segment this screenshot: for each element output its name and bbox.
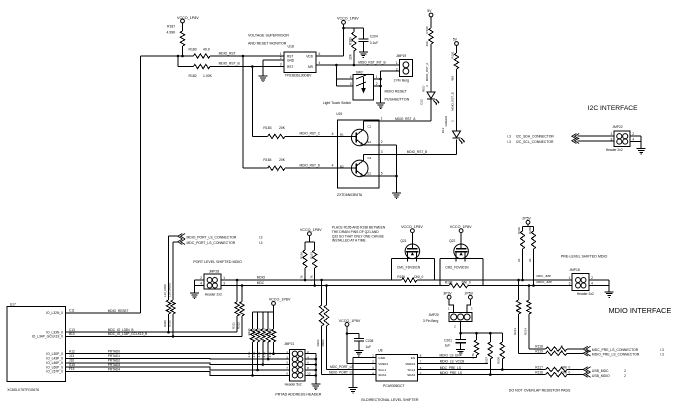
power VCCO_1P8V (rail pullups) bbox=[300, 228, 322, 236]
svg-text:R187: R187 bbox=[167, 25, 175, 29]
wire down to R184 bbox=[242, 56, 244, 168]
net label I2C_SDA_CONNECTOR bbox=[516, 135, 554, 139]
net label PRTAD0 bbox=[108, 350, 121, 354]
svg-text:I.3: I.3 bbox=[660, 348, 664, 352]
svg-text:R183: R183 bbox=[263, 126, 271, 130]
pin number J16 bbox=[69, 359, 74, 363]
resistor R223 PRTAD pullup bbox=[263, 312, 271, 359]
net label MDC_JMP bbox=[537, 274, 552, 278]
net label MDC_PORT_LS_CONNECTOR bbox=[187, 241, 236, 245]
pin number U19.5 bbox=[381, 171, 383, 175]
svg-text:VCCO_1P8V: VCCO_1P8V bbox=[300, 228, 322, 232]
svg-text:MDC: MDC bbox=[257, 281, 265, 285]
svg-text:GND: GND bbox=[378, 356, 386, 360]
svg-text:DNI_0: DNI_0 bbox=[561, 365, 570, 369]
svg-text:USB_MDC: USB_MDC bbox=[592, 369, 609, 373]
net label MDIO_PRE_LS bbox=[440, 371, 462, 375]
pin number D12.2 bbox=[425, 85, 429, 87]
svg-text:MDIO RESET: MDIO RESET bbox=[385, 90, 408, 94]
svg-text:MDC_PRE_LS_CONNECTOR: MDC_PRE_LS_CONNECTOR bbox=[592, 348, 639, 352]
part label CM1_FDV301N bbox=[397, 265, 421, 269]
svg-text:2: 2 bbox=[632, 132, 634, 136]
svg-text:MDIO: MDIO bbox=[257, 275, 266, 279]
junction R204/rail bbox=[325, 284, 328, 287]
sheet ref I2C_SCL bbox=[507, 140, 511, 144]
wire I2C_SDA to JMP22 bbox=[578, 135, 615, 137]
pin number D13.2 bbox=[451, 120, 455, 122]
LED D13 GREEN bbox=[441, 116, 465, 145]
off-page connector MDC_PORT_LS_CONNECTOR bbox=[178, 239, 185, 244]
pin number JMP20.1 bbox=[448, 306, 450, 310]
svg-text:R182: R182 bbox=[189, 74, 197, 78]
net label MDC_PRE_LS bbox=[440, 366, 461, 370]
svg-text:2: 2 bbox=[624, 374, 626, 378]
svg-text:MDIO_RST_A: MDIO_RST_A bbox=[395, 117, 416, 121]
svg-text:U19: U19 bbox=[336, 112, 342, 116]
wire U18 pin2 GND bbox=[263, 60, 284, 74]
net label MDIO_PORT_LS bbox=[329, 371, 354, 375]
wire SW2 right legs to ground bbox=[374, 71, 381, 101]
svg-text:4.99K: 4.99K bbox=[167, 31, 177, 35]
svg-text:IO_L43P_0: IO_L43P_0 bbox=[46, 357, 63, 361]
svg-text:2: 2 bbox=[624, 369, 626, 373]
svg-text:4.7K: 4.7K bbox=[471, 353, 475, 359]
sheet ref I2C_SDA bbox=[507, 135, 511, 139]
svg-text:MDIO_RST_B: MDIO_RST_B bbox=[451, 92, 455, 111]
reference designator U17 bbox=[10, 302, 16, 306]
svg-text:MDIO_RST_D: MDIO_RST_D bbox=[300, 163, 321, 167]
wire PRTAD2 row bbox=[66, 363, 290, 365]
svg-text:3: 3 bbox=[280, 63, 282, 67]
junction R224 bbox=[262, 363, 265, 366]
ground JMP21 bbox=[311, 382, 320, 390]
wire U8 GND pin bbox=[353, 358, 376, 386]
svg-text:U17: U17 bbox=[10, 302, 16, 306]
svg-text:R226: R226 bbox=[247, 328, 251, 335]
svg-text:R204: R204 bbox=[321, 339, 325, 346]
svg-text:4: 4 bbox=[372, 371, 374, 375]
wire I2C_SCL to JMP22 bbox=[578, 140, 615, 142]
wire to R182 bbox=[178, 66, 194, 68]
svg-text:IO_L57P_0: IO_L57P_0 bbox=[46, 370, 63, 374]
resistor R216 bbox=[535, 371, 570, 377]
junction SW2 pin2 bbox=[379, 85, 382, 88]
resistor R180 bbox=[189, 48, 211, 59]
svg-text:MDIO_JMP: MDIO_JMP bbox=[537, 280, 553, 284]
svg-text:R214: R214 bbox=[524, 328, 528, 335]
svg-text:R217: R217 bbox=[535, 365, 543, 369]
svg-text:CM1_FDV301N: CM1_FDV301N bbox=[397, 265, 421, 269]
label 2 Pin Berg bbox=[394, 79, 410, 83]
ground SW2/JMP19 bbox=[376, 101, 385, 109]
IC U8 PCA9306 level shifter bbox=[372, 354, 421, 381]
svg-text:JMP28: JMP28 bbox=[209, 270, 219, 274]
connector JMP20 3-pin berg bbox=[449, 312, 472, 321]
label reset monitor bbox=[248, 42, 287, 46]
svg-text:VCCO_1P8V: VCCO_1P8V bbox=[177, 16, 199, 20]
wire MDIO_RESET row bbox=[66, 312, 141, 314]
net label MDIO rail bbox=[257, 275, 266, 279]
svg-text:0: 0 bbox=[561, 349, 563, 353]
off-page connector USB_MDIO bbox=[583, 372, 590, 377]
label Header 2x2 (JMP18) bbox=[577, 292, 594, 296]
svg-text:MDIO_PORT_LS_CONNECTOR: MDIO_PORT_LS_CONNECTOR bbox=[187, 235, 237, 239]
junction R210/MDIO row bbox=[172, 335, 175, 338]
wire JMP28 pins 2/4 to ground bbox=[195, 280, 204, 291]
off-page connector USB_MDC bbox=[583, 367, 590, 372]
part label XC6SLX75TFGG676 bbox=[7, 388, 39, 392]
resistor R213 bbox=[513, 280, 521, 353]
junction VPULL bbox=[459, 332, 462, 335]
svg-text:MDIO_RESET: MDIO_RESET bbox=[108, 309, 129, 313]
connector JMP18 header 2x2 bbox=[569, 273, 593, 290]
resistor R224 PRTAD pullup bbox=[257, 312, 265, 365]
net label MDC_PORT_LS bbox=[330, 365, 354, 369]
box Q22 group outline bbox=[440, 258, 483, 285]
reference designator JMP28 bbox=[209, 270, 219, 274]
svg-text:6: 6 bbox=[332, 132, 334, 136]
svg-text:2: 2 bbox=[280, 56, 282, 60]
connector JMP22 header 2x2 bbox=[611, 131, 635, 146]
svg-text:VCCO_1P8V: VCCO_1P8V bbox=[450, 225, 472, 229]
svg-text:I2C_SDA_CONNECTOR: I2C_SDA_CONNECTOR bbox=[516, 135, 554, 139]
off-page connector MDIO_PRE_LS_CONNECTOR bbox=[583, 351, 590, 356]
resistor R212 bbox=[237, 286, 245, 337]
svg-text:3: 3 bbox=[569, 282, 571, 286]
svg-text:IO_L34P_GCLK19_0: IO_L34P_GCLK19_0 bbox=[32, 335, 63, 339]
junction R207/USB_MDIO row bbox=[489, 373, 492, 376]
svg-text:1: 1 bbox=[569, 276, 571, 280]
svg-text:R184: R184 bbox=[263, 158, 271, 162]
svg-text:VCCO_1P8V: VCCO_1P8V bbox=[401, 225, 423, 229]
reference designator Q21 bbox=[400, 239, 406, 243]
wire 5V to R191 bbox=[456, 45, 458, 53]
junction R197/rail bbox=[313, 284, 316, 287]
reference designator JMP19 bbox=[396, 54, 406, 58]
svg-text:R207: R207 bbox=[485, 357, 489, 364]
svg-text:U18: U18 bbox=[288, 45, 294, 49]
svg-text:0: 0 bbox=[561, 344, 563, 348]
power VCCO_1P8V (U8) bbox=[339, 319, 361, 326]
pin name IO_L43P_0 bbox=[46, 357, 63, 361]
resistor R196 bbox=[300, 242, 308, 281]
wire MDC_PORT chevron leg bbox=[173, 242, 178, 300]
svg-text:MDIO_PRE_LS_CONNECTOR: MDIO_PRE_LS_CONNECTOR bbox=[592, 352, 640, 356]
label MDIO RESET bbox=[385, 90, 408, 94]
label BI-DIRECTIONAL LEVEL SHIFTER bbox=[361, 398, 418, 402]
svg-text:JMP18: JMP18 bbox=[569, 268, 579, 272]
svg-text:4.7K: 4.7K bbox=[309, 275, 313, 281]
wire MDIO_PORT_LS rail bbox=[221, 279, 572, 281]
resistor R203 bbox=[316, 280, 324, 375]
svg-text:RST: RST bbox=[287, 65, 293, 69]
net label MDIO_LS_VCCB bbox=[440, 359, 465, 363]
pin number U19.1 bbox=[381, 117, 383, 121]
svg-text:ZXTD6N03E6TA: ZXTD6N03E6TA bbox=[337, 193, 363, 197]
reference designator Q22 bbox=[449, 239, 455, 243]
svg-text:7: 7 bbox=[420, 360, 422, 364]
svg-text:6: 6 bbox=[319, 52, 321, 56]
svg-text:1: 1 bbox=[223, 276, 225, 280]
svg-text:R210: R210 bbox=[167, 320, 171, 327]
wire 2P5V to JMP20 pin3 bbox=[467, 299, 470, 312]
svg-text:SCL1: SCL1 bbox=[378, 368, 386, 372]
net label MDC_PRE_LS_CONNECTOR bbox=[592, 348, 639, 352]
svg-text:2: 2 bbox=[372, 360, 374, 364]
svg-text:1: 1 bbox=[376, 75, 378, 79]
reference designator JMP20 bbox=[429, 313, 439, 317]
svg-text:JMP20: JMP20 bbox=[429, 313, 439, 317]
resistor R217 bbox=[535, 365, 570, 371]
pin name IO_L60P_0 bbox=[46, 365, 63, 369]
title MDIO INTERFACE bbox=[609, 306, 672, 315]
svg-text:1: 1 bbox=[381, 117, 383, 121]
wire 3P3V to JMP20 pin1 bbox=[449, 299, 454, 312]
pin number B13 bbox=[69, 332, 75, 336]
LED D12 RED bbox=[420, 85, 439, 106]
svg-text:10K: 10K bbox=[348, 53, 352, 60]
net label MDIO_RST_B (LED) bbox=[407, 150, 427, 154]
svg-text:MDC_PRE_LS: MDC_PRE_LS bbox=[440, 366, 461, 370]
wire U19 emitters to ground bbox=[379, 145, 397, 191]
svg-text:0.1uF: 0.1uF bbox=[370, 41, 378, 45]
svg-text:4.7K: 4.7K bbox=[257, 351, 261, 357]
junction R206/VPULL bbox=[475, 332, 478, 335]
wire PRTAD4 row bbox=[66, 372, 290, 376]
svg-text:4.7K: 4.7K bbox=[263, 351, 267, 357]
sheet ref USB_MDIO bbox=[624, 374, 626, 378]
label light touch switch bbox=[323, 101, 351, 105]
ground JMP22 bbox=[637, 147, 646, 155]
reference designator SW2 bbox=[356, 71, 363, 75]
wire R219 to chevron bbox=[567, 352, 583, 354]
svg-text:RED: RED bbox=[421, 85, 425, 92]
wire R190 to D12 bbox=[430, 44, 432, 92]
svg-text:R208: R208 bbox=[497, 357, 501, 364]
wire R183 to U19 B1 bbox=[285, 135, 338, 137]
junction R223 bbox=[267, 358, 270, 361]
junction C208 branch bbox=[346, 332, 349, 335]
svg-text:JMP22: JMP22 bbox=[612, 125, 622, 129]
note do not overlap resistor pads bbox=[509, 389, 571, 393]
wire 5V to R190 bbox=[430, 17, 432, 28]
svg-text:MDIO_RST: MDIO_RST bbox=[219, 52, 236, 56]
wire 2P5V bracket bbox=[523, 224, 534, 226]
svg-text:U8: U8 bbox=[378, 349, 382, 353]
wire MDIO_RST_B (C2 to D13) bbox=[379, 140, 457, 155]
junction R200/rail bbox=[532, 284, 535, 287]
svg-text:I2C_SCL_CONNECTOR: I2C_SCL_CONNECTOR bbox=[516, 140, 554, 144]
svg-text:R222: R222 bbox=[268, 328, 272, 335]
capacitor C208 bbox=[354, 338, 374, 349]
sheet ref MDC_PORT bbox=[259, 241, 263, 245]
wire U18 VDD to VCCO_1P8V bbox=[316, 24, 344, 56]
svg-text:R223: R223 bbox=[263, 328, 267, 335]
svg-text:MDIO_RST_A: MDIO_RST_A bbox=[425, 63, 429, 82]
junction R187/MDIO_RST bbox=[181, 55, 184, 58]
net label PRTAD2 bbox=[108, 359, 121, 363]
svg-text:AND RESET MONITOR: AND RESET MONITOR bbox=[248, 42, 287, 46]
wire R184 to U19 B2 bbox=[285, 167, 338, 169]
junction R214/rail bbox=[528, 284, 531, 287]
label Header 2x2 (JMP28) bbox=[205, 292, 222, 296]
svg-text:J13: J13 bbox=[69, 354, 74, 358]
svg-text:MDIO_LS_VCCB: MDIO_LS_VCCB bbox=[440, 359, 465, 363]
pin number C13 bbox=[69, 328, 75, 332]
part label TPS3836L30DBV bbox=[285, 74, 313, 78]
svg-text:H12: H12 bbox=[69, 349, 75, 353]
svg-text:TPS3836L30DBV: TPS3836L30DBV bbox=[285, 74, 313, 78]
svg-text:VREF2: VREF2 bbox=[405, 362, 415, 366]
label PUSHBUTTON bbox=[385, 97, 410, 101]
svg-text:PCA9306DCT: PCA9306DCT bbox=[383, 384, 404, 388]
svg-text:4: 4 bbox=[632, 138, 634, 142]
svg-text:MDIO INTERFACE: MDIO INTERFACE bbox=[609, 306, 672, 315]
resistor R210 bbox=[167, 282, 175, 336]
net label PRTAD4 bbox=[108, 367, 121, 371]
svg-text:3P3V: 3P3V bbox=[443, 292, 452, 296]
wire R218 to chevron bbox=[567, 348, 583, 350]
svg-text:6: 6 bbox=[420, 366, 422, 370]
svg-text:R218: R218 bbox=[535, 344, 543, 348]
svg-text:MDIO_RST_C: MDIO_RST_C bbox=[300, 132, 321, 136]
svg-text:MDIO_RST_B: MDIO_RST_B bbox=[219, 62, 241, 66]
svg-text:1: 1 bbox=[611, 132, 613, 136]
svg-text:4.7K: 4.7K bbox=[247, 351, 251, 357]
svg-text:VDD: VDD bbox=[306, 54, 313, 58]
svg-text:4: 4 bbox=[350, 75, 352, 79]
svg-text:R200: R200 bbox=[528, 227, 532, 234]
svg-text:I.3: I.3 bbox=[259, 241, 263, 245]
svg-text:R180: R180 bbox=[189, 48, 197, 52]
resistor R211 bbox=[232, 280, 240, 332]
junction R208/USB_MDC row bbox=[501, 368, 504, 371]
junction R211/rail bbox=[236, 279, 239, 282]
ground U8 bbox=[349, 386, 358, 394]
ground C208 bbox=[354, 348, 363, 356]
svg-text:DNI_0: DNI_0 bbox=[414, 275, 423, 279]
pin name IO_L57P_0 bbox=[46, 370, 63, 374]
wire MDIO_RST to U18 pin1 bbox=[210, 55, 284, 57]
resistor R214 bbox=[524, 286, 532, 350]
power 2P5V (JMP20) bbox=[465, 292, 474, 300]
wire MDIO_RST_A (C1 to D12) bbox=[379, 99, 431, 121]
wire MDIO_PORT chevron leg bbox=[169, 236, 178, 300]
wire MDIO row (FPGA) bbox=[66, 335, 242, 337]
svg-text:PORT LEVEL SHIFTED MDIO: PORT LEVEL SHIFTED MDIO bbox=[193, 260, 242, 264]
svg-text:Header 2x2: Header 2x2 bbox=[606, 148, 623, 152]
svg-text:XC6SLX75TFGG676: XC6SLX75TFGG676 bbox=[7, 388, 39, 392]
label PORT LEVEL SHIFTED MDIO bbox=[193, 260, 242, 264]
resistor R187 bbox=[167, 25, 185, 47]
part label CM2_FDV301N bbox=[445, 265, 469, 269]
net label MDIO_RST_INT_B bbox=[358, 61, 385, 65]
resistor R218 bbox=[535, 344, 567, 351]
svg-text:2: 2 bbox=[396, 67, 398, 71]
label 3 Pin Berg bbox=[423, 319, 439, 323]
pin name IO_L46P_0 bbox=[46, 361, 63, 365]
svg-text:5: 5 bbox=[420, 371, 422, 375]
svg-text:MDIO_PORT_LS: MDIO_PORT_LS bbox=[329, 371, 354, 375]
svg-text:R191: R191 bbox=[450, 51, 454, 59]
svg-text:DO NOT OVERLAP RESISTOR PADS: DO NOT OVERLAP RESISTOR PADS bbox=[509, 389, 571, 393]
connector JMP19 2-pin berg bbox=[396, 60, 412, 77]
svg-text:2P5V: 2P5V bbox=[522, 216, 531, 220]
svg-text:C11: C11 bbox=[69, 309, 75, 313]
junction R213/rail bbox=[517, 279, 520, 282]
net label MDIO_RST_D bbox=[300, 163, 321, 167]
pin number JMP20.3 bbox=[471, 306, 473, 310]
label Header 2x2 (JMP22) bbox=[606, 148, 623, 152]
wire MDC_PRE_LS_CONNECTOR row bbox=[529, 348, 546, 350]
part label ZXTD6N03E6TA bbox=[337, 193, 363, 197]
svg-text:Header 2x2: Header 2x2 bbox=[205, 292, 222, 296]
net label MDIO_RST bbox=[219, 52, 236, 56]
svg-text:PRTAD4: PRTAD4 bbox=[108, 367, 121, 371]
net label MDIO_PORT_LS_CONNECTOR bbox=[187, 235, 237, 239]
svg-text:4: 4 bbox=[200, 282, 202, 286]
IC U17 FPGA box bbox=[7, 307, 65, 382]
svg-text:B1: B1 bbox=[340, 133, 344, 137]
svg-text:DNI_0: DNI_0 bbox=[561, 371, 570, 375]
transistor Q2 of U19 bbox=[338, 154, 379, 176]
power 2P5V (pullups) bbox=[522, 216, 531, 224]
svg-text:R213: R213 bbox=[513, 328, 517, 335]
svg-text:MR: MR bbox=[308, 65, 314, 69]
svg-text:3: 3 bbox=[350, 82, 352, 86]
svg-text:VREF1: VREF1 bbox=[378, 362, 388, 366]
svg-text:3: 3 bbox=[372, 366, 374, 370]
svg-text:2K: 2K bbox=[528, 258, 532, 262]
reference designator JMP22 bbox=[612, 125, 622, 129]
reference designator U18 bbox=[288, 45, 294, 49]
pin number JMP20.2 bbox=[454, 325, 456, 329]
net label MDIO_RST_B bbox=[219, 62, 241, 66]
pin name IO_L34P_GCLK19_0 bbox=[32, 335, 63, 339]
svg-text:PRTAD0: PRTAD0 bbox=[108, 350, 121, 354]
resistor R200 bbox=[528, 227, 536, 286]
resistor R204 bbox=[321, 286, 329, 370]
svg-text:INSTALLED AT A TIME: INSTALLED AT A TIME bbox=[332, 239, 367, 243]
ground C201 bbox=[456, 347, 465, 355]
svg-text:PRTAD ADDRESS HEADER: PRTAD ADDRESS HEADER bbox=[275, 393, 321, 397]
wire MDIO_RESET vertical bus bbox=[140, 56, 142, 313]
junction SW2 branch bbox=[335, 64, 338, 67]
wire USB_MDIO row bbox=[418, 374, 546, 376]
svg-text:1.00K: 1.00K bbox=[203, 74, 213, 78]
resistor R225 PRTAD pullup bbox=[252, 312, 260, 370]
net label USB_MDC bbox=[592, 369, 609, 373]
junction E1/E2 bbox=[395, 175, 398, 178]
pin number C11 bbox=[69, 309, 75, 313]
svg-text:R198: R198 bbox=[445, 280, 453, 284]
pin number H12 bbox=[69, 349, 75, 353]
wire JMP19 pin2 bbox=[381, 70, 399, 72]
svg-text:4.7K: 4.7K bbox=[300, 275, 304, 281]
resistor R198 (series DNI) bbox=[445, 280, 471, 287]
svg-text:MDC_IO_L34P_GCLK19_B: MDC_IO_L34P_GCLK19_B bbox=[108, 332, 148, 336]
svg-text:4.7K: 4.7K bbox=[268, 351, 272, 357]
svg-text:I.3: I.3 bbox=[660, 352, 664, 356]
svg-text:1: 1 bbox=[372, 354, 374, 358]
junction R222 bbox=[272, 352, 275, 355]
junction R212/rail bbox=[241, 284, 244, 287]
pin number G15 bbox=[69, 363, 75, 367]
svg-text:PRE-LEVEL SHIFTED MDIO: PRE-LEVEL SHIFTED MDIO bbox=[561, 255, 608, 259]
wire SW2 left leg bbox=[336, 65, 353, 86]
svg-text:VCCO_1P8V: VCCO_1P8V bbox=[339, 319, 361, 323]
label PRTAD ADDRESS HEADER bbox=[275, 393, 321, 397]
